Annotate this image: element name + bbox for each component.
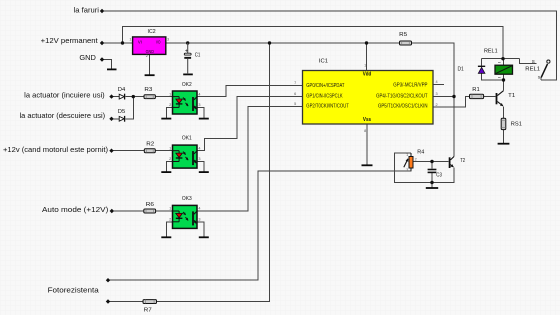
svg-text:IC1: IC1 — [319, 59, 328, 65]
diode D5 — [118, 109, 126, 122]
capacitor C1 — [184, 43, 200, 74]
ground at GND port — [107, 68, 117, 70]
ground IC2 — [145, 74, 155, 76]
svg-text:4: 4 — [198, 207, 200, 211]
svg-text:REL1: REL1 — [484, 49, 498, 55]
svg-text:4: 4 — [198, 146, 200, 150]
wire relay coil bottom pin — [503, 74, 505, 80]
junction C1 top — [186, 41, 189, 44]
wire OK3 pin3 to ground — [197, 222, 204, 237]
capacitor C3 — [428, 169, 442, 179]
wire relay coil top pin — [503, 59, 505, 65]
junction C3 bottom — [430, 181, 433, 184]
wire R3 to OK2 pin1 — [155, 96, 172, 98]
svg-text:GP4/-T1G/OSC2/CLKOUT: GP4/-T1G/OSC2/CLKOUT — [376, 93, 427, 99]
voltage regulator IC2 — [129, 29, 169, 58]
ground OK1 left — [161, 171, 171, 173]
svg-text:3: 3 — [406, 168, 408, 172]
svg-text:3: 3 — [198, 218, 200, 222]
wire +12V permanent port to IC2 VI — [102, 42, 133, 44]
svg-text:1: 1 — [169, 92, 171, 96]
junction IC1 Vdd — [365, 41, 368, 44]
diode D4 — [118, 87, 126, 100]
wire OK1 pin2 to ground — [166, 162, 172, 172]
svg-text:R4: R4 — [417, 149, 425, 155]
wire D5 riser to D4 line — [126, 97, 134, 119]
resistor R7 — [143, 300, 157, 314]
transistor T2 — [449, 157, 466, 169]
wire OK1 output to IC1 pin6 — [197, 96, 303, 150]
resistor R6 — [144, 202, 156, 213]
wire D1 top stem — [481, 59, 483, 66]
node la actuator incuiere port — [109, 94, 113, 98]
svg-text:4: 4 — [198, 92, 200, 96]
svg-text:7: 7 — [294, 81, 296, 85]
svg-text:S: S — [538, 75, 541, 80]
svg-text:D5: D5 — [118, 109, 126, 115]
svg-text:R2: R2 — [146, 142, 154, 148]
wire R4 top loop to ground line — [395, 153, 432, 183]
wire +12V rail from junction up and across to relay — [123, 26, 504, 58]
wire relay top rail — [482, 58, 520, 60]
wire port to D5 — [112, 118, 120, 120]
svg-text:+: + — [185, 48, 188, 54]
svg-text:S: S — [532, 59, 535, 64]
svg-text:RS1: RS1 — [511, 122, 522, 128]
resistor R5 — [399, 32, 411, 45]
wire ground line to T2 emitter — [432, 168, 454, 183]
svg-text:C3: C3 — [436, 173, 442, 179]
svg-text:IC2: IC2 — [148, 29, 156, 35]
node la actuator descuiere port — [109, 117, 113, 121]
ground OK3 left — [161, 236, 171, 238]
svg-text:OK3: OK3 — [182, 196, 192, 202]
wire OK2 pin3 to ground — [197, 107, 204, 117]
transistor T1 — [496, 91, 516, 106]
resistor RS1 — [501, 118, 522, 129]
svg-text:la faruri: la faruri — [74, 6, 100, 15]
wire C3 bottom stem — [431, 173, 433, 182]
svg-text:GP5/T1CKI/OSC1/CLKIN: GP5/T1CKI/OSC1/CLKIN — [378, 104, 428, 110]
wire Fotorezistenta port to R4 bottom — [108, 168, 411, 280]
wire +12v motor port to R2 — [112, 150, 145, 152]
node Auto mode port — [110, 209, 114, 213]
junction C3 top — [430, 160, 433, 163]
svg-text:3: 3 — [198, 103, 200, 107]
wire IC1 Vdd riser — [366, 43, 368, 71]
svg-text:1: 1 — [129, 38, 131, 42]
svg-text:GP3/-MCLR/VPP: GP3/-MCLR/VPP — [393, 82, 428, 88]
optocoupler OK2 — [169, 82, 200, 114]
wire D4 to R3 — [126, 96, 144, 98]
wire C3 ground stem — [431, 183, 433, 188]
resistor R1 — [470, 87, 484, 98]
svg-text:VI: VI — [138, 39, 142, 45]
node Fotorezistenta port — [106, 278, 110, 282]
svg-text:Auto mode (+12V): Auto mode (+12V) — [42, 205, 109, 214]
wire R2 to OK1 pin1 — [155, 150, 172, 152]
GROUND SYMBOLS — [107, 69, 509, 237]
svg-text:GP2/T0CKI/INT/COUT: GP2/T0CKI/INT/COUT — [306, 104, 349, 110]
svg-text:VO: VO — [156, 39, 161, 45]
svg-text:R5: R5 — [399, 32, 407, 38]
svg-text:la actuator (descuiere usi): la actuator (descuiere usi) — [20, 111, 106, 120]
svg-text:Fotorezistenta: Fotorezistenta — [48, 285, 100, 294]
ground RS1 — [498, 143, 510, 145]
svg-text:REL1: REL1 — [525, 66, 540, 72]
optocoupler OK3 — [169, 196, 200, 228]
wire GND port to ground symbol — [102, 60, 112, 70]
svg-text:R3: R3 — [144, 87, 152, 93]
node +12v motor pornit port — [109, 149, 113, 153]
svg-text:D1: D1 — [458, 67, 464, 73]
svg-text:C1: C1 — [195, 53, 201, 59]
wire IC1 Vss down to ground — [366, 124, 368, 165]
svg-text:Vss: Vss — [363, 117, 371, 123]
PORT LABELS — [3, 6, 109, 295]
svg-text:1: 1 — [364, 63, 366, 67]
ground OK3 right — [199, 236, 209, 238]
junction relay coil bottom node — [502, 78, 505, 81]
svg-text:Vdd: Vdd — [363, 72, 372, 78]
svg-text:R7: R7 — [144, 308, 152, 314]
wire switch arm base to right riser — [540, 77, 542, 80]
wire OK2 output to IC1 pin7 — [197, 85, 303, 96]
svg-text:1: 1 — [169, 207, 171, 211]
junction relay top node — [501, 57, 504, 60]
wire OK1 pin3 to ground — [197, 162, 204, 172]
svg-text:6: 6 — [294, 92, 296, 96]
wire switch feed with step — [520, 59, 537, 64]
svg-text:3: 3 — [198, 157, 200, 161]
optocoupler OK1 — [169, 136, 200, 169]
svg-text:8: 8 — [364, 129, 366, 133]
wire +5V rail from IC2 VO to R5 — [166, 42, 400, 44]
wire R4 wiper to T2 base — [413, 161, 449, 163]
svg-text:GP1/CIN-/ICSPCLK: GP1/CIN-/ICSPCLK — [306, 93, 343, 99]
wire port to D4 — [112, 96, 120, 98]
svg-text:3: 3 — [167, 38, 169, 42]
relay coil REL1 — [484, 49, 513, 78]
svg-text:2: 2 — [169, 157, 171, 161]
wire R6 to OK3 pin1 — [156, 210, 173, 212]
wire D1 bottom to coil node — [482, 73, 504, 80]
PORTS — [100, 9, 114, 304]
wire C3 top stem — [431, 162, 433, 169]
wire GP5 pin to R1 — [433, 97, 470, 107]
wire OK3 pin2 to ground — [166, 222, 172, 237]
svg-text:2: 2 — [169, 218, 171, 222]
wire R7 port to resistor — [108, 301, 143, 303]
ground C1 — [183, 73, 193, 75]
wire OK3 output to IC1 pin5 — [197, 107, 303, 211]
wire Auto mode port to R6 — [112, 210, 144, 212]
svg-text:R6: R6 — [146, 202, 154, 208]
svg-text:T2: T2 — [460, 158, 465, 164]
svg-text:D4: D4 — [118, 87, 126, 93]
wire R1 to T1 base — [484, 96, 496, 98]
junction GP4 node — [452, 95, 455, 98]
junction +5V riser — [268, 41, 271, 44]
node la faruri port — [100, 9, 104, 13]
ground OK2 right — [199, 118, 209, 120]
resistor R2 — [144, 142, 155, 153]
ground OK1 right — [199, 171, 209, 173]
svg-text:R1: R1 — [472, 87, 480, 93]
svg-text:+12v (cand motorul este pornit: +12v (cand motorul este pornit) — [3, 145, 109, 154]
ground C3 — [426, 187, 438, 189]
svg-text:5: 5 — [294, 102, 296, 106]
wire GP3 stub — [433, 83, 444, 85]
svg-text:2: 2 — [415, 157, 417, 161]
svg-text:1: 1 — [406, 153, 408, 157]
svg-text:la actuator (incuiere usi): la actuator (incuiere usi) — [24, 90, 105, 99]
svg-text:OK1: OK1 — [182, 136, 192, 142]
node +12V permanent port — [100, 41, 104, 45]
node GND port — [100, 57, 104, 61]
wire T1 emitter down to RS1 — [503, 106, 505, 118]
junction D4 D5 — [132, 95, 135, 98]
wire la faruri to relay switch contact — [102, 11, 557, 80]
wire +5V riser down to R7 line — [157, 43, 270, 302]
wire R5 right to GP4 column down to T2 collector — [412, 43, 455, 156]
svg-text:1: 1 — [169, 146, 171, 150]
wire GP4 pin to node — [433, 95, 454, 97]
ground IC1 Vss — [362, 164, 373, 166]
wire OK2 pin2 to ground — [166, 107, 172, 117]
svg-text:T1: T1 — [508, 93, 515, 99]
relay switch REL1 — [525, 59, 550, 80]
svg-text:4: 4 — [436, 80, 438, 84]
svg-text:2: 2 — [146, 54, 148, 58]
svg-text:GND: GND — [79, 53, 96, 62]
svg-text:OK2: OK2 — [182, 82, 192, 88]
resistor R3 — [144, 87, 155, 99]
ground OK2 left — [161, 118, 171, 120]
wire IC2 GND pin down — [148, 54, 150, 74]
svg-text:2: 2 — [169, 103, 171, 107]
node R7 line port — [106, 299, 110, 303]
diode D1 — [458, 66, 486, 73]
junction +12V riser — [121, 41, 124, 44]
trimmer R4 — [404, 149, 425, 172]
svg-text:3: 3 — [436, 92, 438, 96]
wire RS1 to ground — [503, 130, 505, 143]
svg-text:GP0/CIN+/ICSPDAT: GP0/CIN+/ICSPDAT — [306, 83, 344, 89]
svg-text:+12V permanent: +12V permanent — [41, 36, 99, 45]
svg-text:2: 2 — [436, 103, 438, 107]
microcontroller IC1 — [294, 59, 437, 133]
wire T1 collector up to relay node — [503, 80, 505, 91]
